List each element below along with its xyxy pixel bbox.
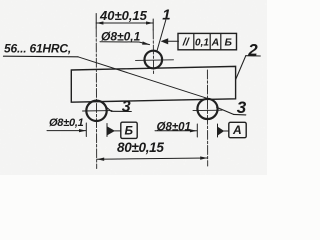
datum A dim arrow <box>190 129 197 132</box>
datum Б triangle <box>107 127 115 136</box>
hole bottom-right circle <box>197 99 217 119</box>
datum box Б <box>121 122 137 138</box>
datum Б dim shelf <box>47 130 86 132</box>
datum A left tangent extension <box>196 124 198 137</box>
part 2 label leader <box>236 56 246 79</box>
label 3 left shelf <box>111 110 131 112</box>
dim 40 arrow right <box>146 21 153 24</box>
label 3 right shelf <box>234 113 246 116</box>
label 3 left leader <box>107 108 112 112</box>
dimension 80±0,15 line <box>97 158 208 159</box>
HRC note leader <box>78 57 207 98</box>
paper grain <box>0 0 267 175</box>
datum Б left tangent extension <box>85 123 87 137</box>
hole bottom-left circle <box>86 101 106 121</box>
hole top circle <box>145 51 163 69</box>
centerline horizontal left hole <box>83 110 113 112</box>
label 3 right leader <box>217 107 234 114</box>
datum A triangle <box>218 127 225 136</box>
dim Ø8 top arrow <box>142 41 150 44</box>
leader 1 line <box>157 20 166 52</box>
part 2 bar outline <box>71 66 235 102</box>
centerline vertical right hole <box>206 70 208 166</box>
datum Б dim arrow <box>79 129 86 132</box>
datum Б connector <box>115 130 121 132</box>
dimension 40±0,15 line <box>96 22 153 24</box>
part 2 label shelf <box>246 55 260 57</box>
centerline horizontal top hole <box>136 59 174 62</box>
dim 40 arrow left <box>96 21 103 24</box>
datum A connector <box>224 130 229 132</box>
tolerance frame leader <box>166 40 179 42</box>
HRC note underline <box>4 55 79 58</box>
dimension Ø8±0,1 top shelf <box>100 42 150 45</box>
dim 80 arrow right <box>200 156 207 159</box>
datum Б right tangent extension <box>106 124 108 137</box>
tolerance frame box <box>178 33 237 49</box>
dim 80 arrow left <box>97 158 104 161</box>
centerline vertical left hole <box>95 14 97 29</box>
datum A right tangent extension <box>217 124 219 137</box>
tolerance frame leader arrow <box>161 38 169 44</box>
centerline vertical top hole <box>152 19 154 30</box>
centerline horizontal right hole <box>193 109 222 111</box>
datum box A <box>229 122 246 137</box>
datum A dim shelf <box>155 130 197 132</box>
